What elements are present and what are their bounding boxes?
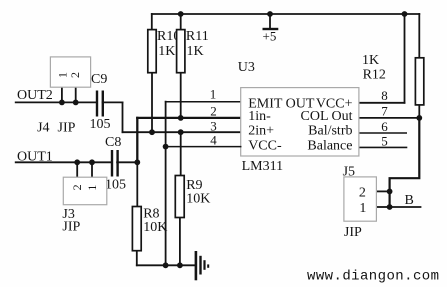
wire J4 pin1 stub — [61, 87, 63, 102]
op-amp U1 comparator box LM311 — [241, 88, 359, 156]
ground — [196, 251, 208, 280]
svg-text:1K: 1K — [362, 53, 379, 68]
wire J5 pin1 stub — [376, 206, 389, 208]
node ground rail junction 2 — [177, 262, 183, 268]
svg-text:C9: C9 — [91, 72, 107, 87]
wire R9 top lead — [180, 132, 182, 175]
node pin7 R12 junction — [416, 115, 422, 121]
connector J4 pin number 2 — [68, 72, 82, 78]
wire R11 bottom lead — [180, 73, 182, 118]
connector J5 box — [344, 177, 377, 221]
node J3 pin2 on OUT1 — [74, 159, 80, 165]
capacitor C8 — [112, 150, 118, 177]
wire pin1 pin4 ground vertical — [165, 102, 167, 266]
svg-text:3: 3 — [210, 118, 217, 133]
svg-text:Bal/strb: Bal/strb — [308, 124, 352, 139]
connector J3 pin number 1 — [85, 185, 99, 191]
connector J3 box — [63, 177, 107, 205]
svg-text:LM311: LM311 — [242, 159, 283, 174]
svg-text:1: 1 — [359, 201, 366, 216]
wire J4 pin2 stub — [75, 87, 77, 102]
svg-text:R12: R12 — [363, 67, 386, 82]
svg-text:1: 1 — [85, 185, 99, 191]
svg-text:JIP: JIP — [62, 220, 80, 235]
wire OUT1 — [16, 161, 112, 163]
svg-text:1in-: 1in- — [248, 109, 271, 124]
svg-text:4: 4 — [210, 132, 217, 147]
connector J3 pin number 2 — [70, 184, 84, 190]
wire C9 down to pin 3 — [122, 102, 124, 132]
svg-text:2: 2 — [68, 72, 82, 78]
wire pin2 C8 R8 vertical — [136, 118, 138, 162]
svg-text:2: 2 — [70, 184, 84, 190]
node pin4 ground junction — [163, 144, 169, 150]
svg-text:6: 6 — [381, 119, 388, 134]
resistor R11 — [177, 30, 185, 73]
wire pin 3 — [123, 131, 241, 133]
node J4 pin1 on OUT2 — [59, 100, 65, 106]
svg-text:C8: C8 — [105, 135, 121, 150]
svg-text:105: 105 — [105, 178, 126, 193]
svg-text:1K: 1K — [158, 44, 175, 59]
svg-text:10K: 10K — [186, 192, 210, 207]
wire +5 stem — [269, 14, 271, 29]
svg-text:COL Out: COL Out — [301, 109, 353, 124]
svg-text:8: 8 — [381, 88, 388, 103]
svg-text:J5: J5 — [343, 164, 355, 179]
connector J4 pin number 1 — [56, 72, 70, 78]
resistor R12 — [415, 58, 423, 105]
wire J5 pin2 stub — [376, 190, 389, 192]
capacitor C9 — [97, 91, 103, 117]
wire J3 pin1 stub — [91, 162, 93, 177]
svg-text:www.diangon.com: www.diangon.com — [307, 269, 439, 285]
node R9 pin3 junction — [178, 129, 184, 135]
node ground rail junction 1 — [163, 262, 169, 268]
svg-text:U3: U3 — [238, 60, 255, 75]
wire C9 to corner — [103, 101, 123, 103]
node +5 rail junction — [267, 11, 273, 17]
svg-text:7: 7 — [381, 104, 388, 119]
wire junction to R8 top — [136, 162, 138, 206]
wire R12 bottom lead — [418, 105, 420, 118]
wire pin 8 — [359, 102, 405, 104]
svg-text:OUT1: OUT1 — [17, 150, 53, 165]
wire R11 top lead — [180, 14, 182, 30]
wire pin 5 — [359, 146, 407, 148]
wire C8 to junction — [117, 161, 137, 163]
wire node B line — [390, 206, 421, 208]
svg-text:JIP: JIP — [344, 225, 362, 240]
wire pin 7 — [359, 117, 419, 119]
wire pin 6 — [359, 132, 406, 134]
node R11 pin2 junction — [178, 115, 184, 121]
svg-text:VCC-: VCC- — [248, 139, 282, 154]
wire R9 bottom lead — [179, 218, 181, 266]
svg-text:10K: 10K — [143, 220, 167, 235]
node J5 pin1 junction B — [387, 204, 393, 210]
node J4 pin2 on OUT2 — [73, 100, 79, 106]
svg-text:JIP: JIP — [58, 121, 76, 136]
svg-text:105: 105 — [90, 117, 111, 132]
svg-text:Balance: Balance — [307, 139, 352, 154]
wire bottom ground rail — [137, 264, 195, 266]
svg-text:2: 2 — [210, 104, 217, 119]
wire R12 top lead — [418, 14, 420, 58]
wire pin 1 — [166, 101, 241, 103]
svg-text:1: 1 — [210, 87, 217, 102]
connector J4 box — [50, 57, 90, 87]
resistor R8 — [132, 207, 141, 251]
resistor R9 — [175, 176, 184, 218]
svg-text:1K: 1K — [187, 44, 204, 59]
node J3 pin1 on OUT1 — [89, 159, 95, 165]
svg-text:5: 5 — [381, 134, 388, 149]
svg-text:R11: R11 — [186, 29, 209, 44]
svg-text:2: 2 — [359, 186, 366, 201]
wire top +5 rail — [152, 13, 420, 15]
svg-text:B: B — [405, 193, 414, 208]
wire pin7 to J5 — [390, 118, 420, 207]
wire pin8 riser — [404, 14, 406, 103]
resistor R10 — [148, 30, 156, 73]
node C8 R8 pin2 junction — [134, 159, 140, 165]
node J5 pin2 junction — [387, 189, 393, 195]
svg-text:OUT2: OUT2 — [17, 88, 53, 103]
svg-text:+5: +5 — [263, 29, 277, 44]
wire pin 4 — [166, 146, 241, 148]
node pin8 rail junction — [402, 11, 408, 17]
svg-text:2in+: 2in+ — [248, 124, 274, 139]
wire pin 2 — [137, 117, 240, 119]
node R11 top rail junction — [178, 11, 184, 17]
wire R8 bottom lead — [136, 251, 138, 266]
svg-text:J4: J4 — [37, 121, 49, 136]
wire OUT2 — [16, 101, 97, 103]
wire R10 top lead — [151, 14, 153, 30]
node R10 pin3 junction — [149, 129, 155, 135]
wire R10 bottom lead — [151, 73, 153, 133]
wire J3 pin2 stub — [76, 162, 78, 177]
power +5 bar — [263, 28, 279, 30]
